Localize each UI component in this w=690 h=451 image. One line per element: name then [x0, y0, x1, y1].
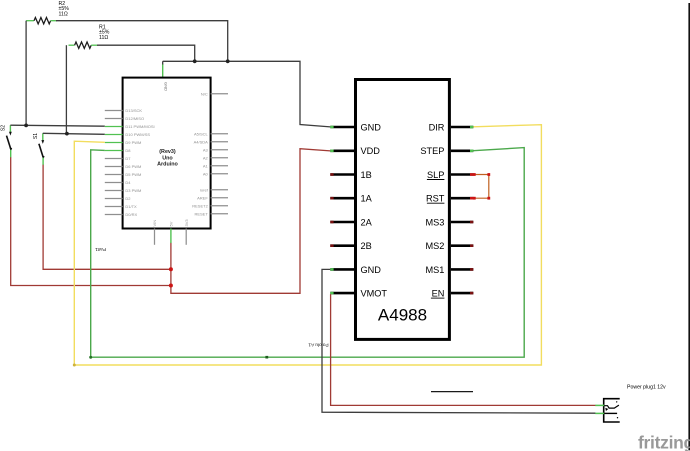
A4988 right pins DIR,STEP,SLP,RST,MS3,MS2,MS1,EN	[451, 127, 473, 293]
wire R2 right to GND net	[56, 21, 228, 62]
wire GND top net	[163, 61, 331, 127]
svg-text:D1/TX: D1/TX	[125, 204, 137, 209]
svg-text:RESET: RESET	[194, 211, 208, 216]
svg-text:11Ω: 11Ω	[59, 12, 68, 18]
wire yellow D9 to DIR	[74, 125, 541, 365]
svg-text:A1: A1	[203, 163, 209, 168]
wire R2 left drop to D11 net	[25, 21, 27, 126]
wire S2 red to 5V net	[11, 157, 171, 285]
wire VMOT to power plug plus	[331, 294, 596, 405]
svg-text:MS2: MS2	[425, 241, 444, 251]
svg-text:D6 PWM: D6 PWM	[125, 164, 141, 169]
arduino U1 title (rotated 180)	[157, 149, 178, 167]
svg-text:GND: GND	[164, 82, 169, 91]
svg-text:D7: D7	[125, 156, 131, 161]
bendpoint green	[89, 356, 92, 359]
svg-text:GND: GND	[361, 122, 382, 132]
svg-text:D5 PWM: D5 PWM	[125, 172, 141, 177]
svg-text:A5/SCL: A5/SCL	[194, 131, 209, 136]
svg-text:2A: 2A	[361, 217, 373, 227]
svg-text:Arduino: Arduino	[157, 162, 178, 168]
label R2 11 ohm	[59, 1, 70, 18]
power plug pin -	[595, 412, 604, 414]
svg-text:GND: GND	[361, 265, 382, 275]
junction R1/GND net	[193, 59, 197, 63]
jumper endpoints	[473, 173, 490, 200]
svg-text:A3: A3	[203, 147, 209, 152]
junction S2/R2	[24, 124, 28, 128]
svg-text:3V3: 3V3	[184, 219, 189, 227]
svg-text:2B: 2B	[361, 241, 372, 251]
svg-text:D13/SCK: D13/SCK	[125, 108, 142, 113]
svg-text:N/C: N/C	[201, 91, 208, 96]
A4988 left pins GND,VDD,1B,1A,2A,2B,GND,VMOT	[330, 127, 354, 293]
switch S2	[1, 125, 13, 158]
svg-text:Pololu A1: Pololu A1	[308, 341, 329, 347]
wire S2 to D11	[10, 125, 104, 126]
svg-text:D12/MISO: D12/MISO	[125, 116, 144, 121]
svg-text:A4988: A4988	[378, 306, 427, 325]
junction 5V/S1	[169, 267, 173, 271]
svg-text:RST: RST	[426, 194, 445, 204]
svg-text:S1: S1	[33, 133, 39, 139]
svg-text:SLP: SLP	[427, 170, 444, 180]
resistor R1	[69, 42, 98, 48]
svg-text:D3 PWM: D3 PWM	[125, 188, 141, 193]
svg-text:STEP: STEP	[420, 146, 444, 156]
bendpoint yellow	[73, 364, 76, 367]
A4988 U2 body	[356, 80, 450, 340]
wire SLP-RST jumper	[474, 175, 489, 199]
wire GND net drop to arduino GND pin	[162, 61, 164, 65]
bendpoint green mid	[265, 356, 268, 359]
svg-text:Part1: Part1	[95, 247, 106, 252]
wire R1 right to GND net	[97, 45, 195, 61]
svg-text:D8: D8	[125, 148, 131, 153]
arduino right pins N/C,A5..A0,ioref,AREF,RESET	[211, 94, 228, 214]
svg-text:VMOT: VMOT	[361, 289, 388, 299]
switch S1	[33, 133, 45, 165]
junction R2/GND net	[226, 59, 230, 63]
svg-text:Power plug1 12v: Power plug1 12v	[627, 385, 666, 391]
arduino bottom pin labels	[152, 219, 189, 227]
svg-text:1B: 1B	[361, 170, 372, 180]
label R1 11 ohm	[99, 24, 110, 41]
svg-text:1A: 1A	[361, 194, 373, 204]
wire S1 red to 5V net	[43, 165, 171, 270]
svg-text:MS1: MS1	[425, 265, 444, 275]
arduino bottom pins VIN,5V,3V3	[155, 229, 187, 245]
resistor R2	[26, 18, 57, 24]
svg-text:S2: S2	[1, 125, 7, 131]
arduino left pin labels	[125, 108, 154, 217]
wire R1 left drop to D10 net	[65, 45, 67, 133]
svg-text:5V: 5V	[169, 221, 174, 226]
svg-text:D11 PWM/MOSI: D11 PWM/MOSI	[125, 124, 154, 129]
power plug J1 body	[604, 399, 620, 422]
svg-text:MS3: MS3	[425, 217, 444, 227]
wire green D8 to STEP	[91, 148, 525, 358]
svg-text:VDD: VDD	[361, 146, 381, 156]
junction 5V/S2	[169, 284, 173, 288]
svg-text:RESET2: RESET2	[192, 203, 208, 208]
svg-text:D9 PWM: D9 PWM	[125, 140, 141, 145]
svg-text:A0: A0	[203, 171, 209, 176]
svg-text:AREF: AREF	[197, 195, 208, 200]
svg-text:D2: D2	[125, 196, 131, 201]
floating wire segment	[431, 391, 473, 393]
svg-text:fritzing: fritzing	[638, 433, 690, 451]
svg-text:D0/RX: D0/RX	[125, 212, 137, 217]
svg-text:DIR: DIR	[429, 122, 445, 132]
svg-text:(Rev3): (Rev3)	[159, 149, 176, 155]
junction S1/R1	[65, 132, 69, 136]
svg-text:Uno: Uno	[162, 155, 173, 161]
svg-text:D10 PWM/SS: D10 PWM/SS	[125, 132, 150, 137]
arduino left pins D13..D0	[105, 111, 123, 215]
power plug pin +	[595, 404, 604, 406]
svg-text:ioref: ioref	[200, 187, 209, 192]
svg-text:A4/SDA: A4/SDA	[194, 139, 209, 144]
svg-text:EN: EN	[432, 289, 445, 299]
svg-text:VIN: VIN	[152, 220, 157, 227]
A4988 right pin labels	[420, 122, 444, 298]
arduino right pin labels	[192, 91, 208, 216]
svg-text:D4: D4	[125, 180, 131, 185]
wire A4988 GND to power plug minus	[322, 269, 596, 413]
arduino U1 body	[123, 78, 211, 229]
svg-text:11Ω: 11Ω	[99, 35, 108, 41]
wire S1 to D10	[43, 133, 105, 134]
svg-text:A2: A2	[203, 155, 209, 160]
wire 5V pin to VDD	[171, 149, 330, 294]
canvas edge line	[688, 3, 690, 450]
A4988 left pin labels	[361, 122, 388, 298]
